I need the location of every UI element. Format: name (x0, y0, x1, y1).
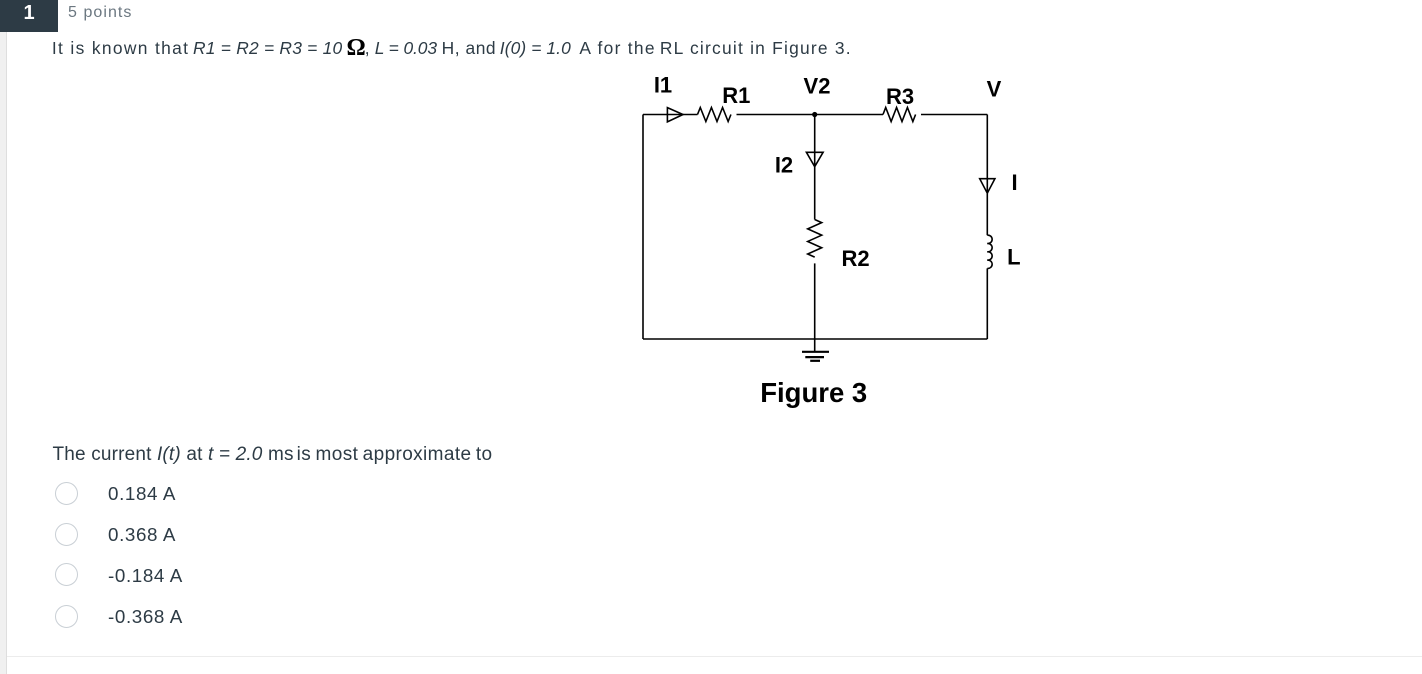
wire: right side from V down to inductor (986, 115, 988, 236)
resistor R1 (zigzag) (698, 108, 731, 122)
resistor R2 (vertical zigzag) (808, 220, 822, 258)
ground symbol (three bars) (802, 352, 829, 361)
resistor R3 (zigzag) (883, 108, 916, 122)
label I (1011, 170, 1017, 195)
option 4 (54, 605, 654, 628)
svg-text:Figure 3: Figure 3 (760, 377, 867, 408)
svg-text:I: I (1011, 170, 1017, 195)
circuit schematic figure (620, 70, 1060, 420)
option 1 (54, 482, 654, 505)
wire: inductor to bottom-right corner (986, 268, 988, 339)
question prompt line (53, 445, 294, 464)
question number box (0, 0, 58, 32)
wire: middle branch from V2 down to R2 (814, 115, 816, 220)
option 2 (54, 523, 654, 546)
svg-text:R3: R3 (886, 84, 914, 109)
label R3 (886, 84, 914, 109)
node V2 junction dot (812, 112, 817, 117)
label V (987, 76, 1002, 101)
label R2 (841, 246, 869, 271)
svg-text:I2: I2 (775, 153, 793, 178)
svg-text:V2: V2 (804, 74, 831, 99)
label L (1007, 244, 1020, 269)
option 3 (54, 564, 654, 587)
inductor L (four loops) (987, 235, 992, 268)
points label (68, 4, 132, 22)
wire: top-left segment from left corner to R1 (643, 114, 698, 116)
bottom divider line (7, 656, 1422, 657)
wire: left side vertical (642, 115, 644, 340)
wire: R3 to top-right corner node V (921, 114, 987, 116)
svg-text:I1: I1 (654, 73, 672, 98)
current source arrow I1 (open triangle pointing right) (667, 108, 683, 122)
wire: bottom horizontal (643, 338, 987, 340)
svg-text:V: V (987, 76, 1002, 101)
svg-text:R1: R1 (722, 83, 750, 108)
wire: node V2 to R3 (815, 114, 883, 116)
label V2 (804, 74, 831, 99)
label I1 (654, 73, 672, 98)
question statement line (0, 40, 1422, 64)
label R1 (722, 83, 750, 108)
label I2 (775, 153, 793, 178)
wire: R1 to node V2 (737, 114, 815, 116)
current arrow I (open triangle pointing down) (980, 179, 995, 194)
left page background strip (0, 0, 7, 674)
caption Figure 3 (760, 377, 867, 408)
svg-text:R2: R2 (841, 246, 869, 271)
svg-text:L: L (1007, 244, 1020, 269)
current arrow I2 (open triangle pointing down) (806, 152, 823, 166)
wire: R2 down through bottom wire to ground (814, 263, 816, 351)
